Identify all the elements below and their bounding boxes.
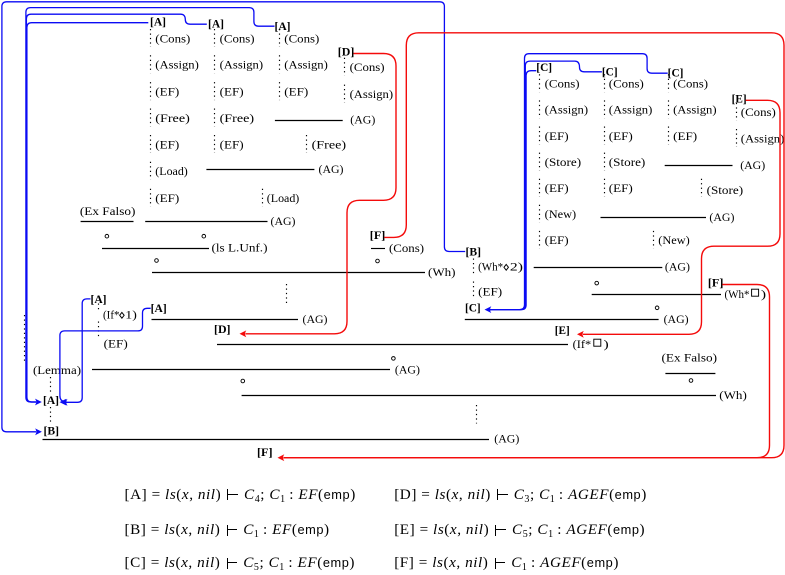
svg-text:(AG): (AG)	[709, 210, 734, 224]
svg-text:(Assign): (Assign)	[350, 87, 394, 101]
svg-text:(Wh): (Wh)	[428, 265, 456, 279]
svg-text:(Wh*: (Wh*	[478, 259, 503, 273]
svg-text:[A]: [A]	[208, 19, 224, 31]
svg-text:[C]: [C]	[602, 66, 618, 78]
svg-text:(Cons): (Cons)	[741, 105, 776, 119]
svg-text:[E]: [E]	[732, 94, 747, 106]
svg-text:(EF): (EF)	[545, 129, 569, 143]
svg-text:[A]: [A]	[275, 21, 291, 33]
svg-text:[A]: [A]	[151, 303, 167, 315]
svg-text:(AG): (AG)	[395, 363, 420, 377]
svg-text:2): 2)	[510, 259, 523, 273]
svg-text:): )	[761, 287, 766, 301]
svg-text:(Cons): (Cons)	[220, 31, 255, 45]
svg-text:[D]: [D]	[214, 324, 231, 336]
svg-text:(EF): (EF)	[155, 137, 179, 151]
svg-text:(Ex Falso): (Ex Falso)	[80, 204, 136, 218]
svg-text:[B]: [B]	[44, 425, 60, 437]
svg-text:(Free): (Free)	[312, 137, 347, 151]
svg-text:(EF): (EF)	[155, 191, 179, 205]
svg-text:(EF): (EF)	[104, 337, 128, 351]
svg-text:(Cons): (Cons)	[350, 60, 385, 74]
svg-text:(AG): (AG)	[664, 312, 689, 326]
svg-text:(Cons): (Cons)	[545, 77, 580, 91]
svg-text:[E]: [E]	[555, 325, 570, 337]
svg-text:): )	[604, 337, 609, 351]
svg-text:(Cons): (Cons)	[155, 31, 190, 45]
svg-text:(EF): (EF)	[673, 129, 697, 143]
svg-text:(AG): (AG)	[350, 113, 375, 127]
svg-text:(New): (New)	[658, 233, 690, 247]
svg-text:(EF): (EF)	[155, 84, 179, 98]
svg-text:[C]: [C]	[536, 62, 552, 74]
svg-text:(EF): (EF)	[609, 181, 633, 195]
svg-text:[A]: [A]	[43, 395, 59, 407]
svg-text:(Assign): (Assign)	[220, 58, 264, 72]
svg-text:(Cons): (Cons)	[609, 77, 644, 91]
svg-text:(EF): (EF)	[478, 285, 502, 299]
svg-text:(AG): (AG)	[319, 162, 344, 176]
svg-text:(Assign): (Assign)	[545, 103, 589, 117]
svg-text:(Assign): (Assign)	[155, 58, 199, 72]
svg-text:(EF): (EF)	[220, 137, 244, 151]
svg-text:[B]: [B]	[466, 247, 482, 259]
svg-text:(Free): (Free)	[220, 111, 255, 125]
svg-text:(EF): (EF)	[545, 181, 569, 195]
svg-text:(Assign): (Assign)	[673, 103, 717, 117]
svg-text:(ls L.Unf.): (ls L.Unf.)	[212, 241, 268, 255]
svg-text:(AG): (AG)	[494, 432, 519, 446]
svg-text:(AG): (AG)	[665, 260, 690, 274]
svg-text:(EF): (EF)	[220, 84, 244, 98]
svg-text:(Wh): (Wh)	[719, 388, 747, 402]
svg-text:(EF): (EF)	[609, 129, 633, 143]
svg-text:(Store): (Store)	[609, 155, 646, 169]
svg-text:[F]: [F]	[708, 278, 724, 290]
svg-text:(AG): (AG)	[271, 214, 296, 228]
svg-text:(Store): (Store)	[707, 183, 744, 197]
svg-text:(Assign): (Assign)	[609, 103, 653, 117]
svg-text:(Assign): (Assign)	[284, 58, 328, 72]
svg-text:[C]: [C]	[668, 68, 684, 80]
svg-text:1): 1)	[125, 307, 137, 321]
svg-text:(Free): (Free)	[155, 111, 190, 125]
svg-text:(AG): (AG)	[303, 312, 328, 326]
svg-text:[A]: [A]	[150, 16, 166, 28]
svg-text:(Load): (Load)	[267, 191, 300, 205]
svg-text:(Cons): (Cons)	[284, 31, 319, 45]
svg-text:[F]: [F]	[257, 447, 273, 459]
svg-text:(Load): (Load)	[155, 164, 188, 178]
svg-text:(AG): (AG)	[740, 158, 765, 172]
svg-text:(Wh*: (Wh*	[725, 287, 750, 301]
svg-text:(EF): (EF)	[545, 233, 569, 247]
svg-text:(If*: (If*	[573, 337, 592, 351]
svg-text:(Ex Falso): (Ex Falso)	[662, 350, 718, 364]
svg-text:(Cons): (Cons)	[389, 241, 424, 255]
svg-text:(EF): (EF)	[284, 84, 308, 98]
svg-text:(New): (New)	[545, 207, 577, 221]
svg-text:[C]: [C]	[465, 302, 481, 314]
svg-text:[F]: [F]	[370, 230, 386, 242]
svg-text:[D]: [D]	[338, 47, 355, 59]
svg-text:(Store): (Store)	[545, 155, 582, 169]
svg-text:(If*: (If*	[103, 307, 120, 321]
svg-text:(Assign): (Assign)	[741, 131, 785, 145]
svg-text:(Lemma): (Lemma)	[33, 363, 81, 377]
